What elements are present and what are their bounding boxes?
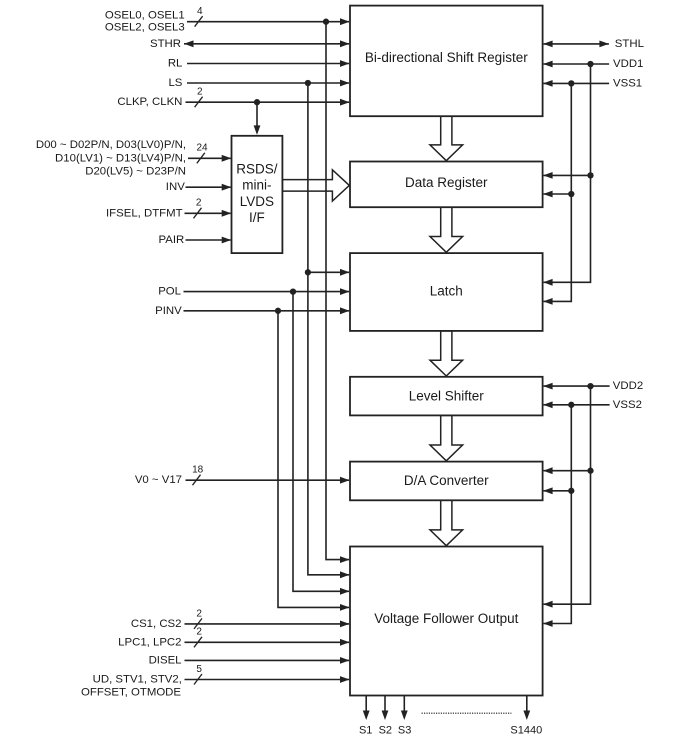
svg-text:S2: S2 — [379, 725, 392, 737]
svg-text:INV: INV — [166, 181, 185, 193]
svg-text:Bi-directional Shift Register: Bi-directional Shift Register — [365, 50, 528, 65]
svg-text:4: 4 — [197, 6, 203, 17]
svg-text:VSS2: VSS2 — [613, 399, 642, 411]
svg-text:LPC1, LPC2: LPC1, LPC2 — [118, 636, 181, 648]
svg-text:PAIR: PAIR — [159, 234, 185, 246]
svg-text:D20(LV5) ~ D23P/N: D20(LV5) ~ D23P/N — [85, 165, 186, 177]
svg-text:VDD1: VDD1 — [613, 58, 643, 70]
svg-text:S1: S1 — [359, 725, 372, 737]
svg-text:18: 18 — [192, 465, 204, 476]
svg-text:OFFSET, OTMODE: OFFSET, OTMODE — [81, 686, 181, 698]
svg-text:IFSEL, DTFMT: IFSEL, DTFMT — [106, 207, 183, 219]
svg-text:S1440: S1440 — [510, 725, 542, 737]
svg-text:RSDS/: RSDS/ — [236, 162, 278, 177]
svg-text:2: 2 — [196, 198, 202, 209]
svg-text:D/A Converter: D/A Converter — [404, 473, 489, 488]
svg-text:2: 2 — [196, 608, 202, 619]
svg-text:DISEL: DISEL — [149, 654, 182, 666]
svg-text:I/F: I/F — [249, 210, 265, 225]
svg-text:OSEL0, OSEL1: OSEL0, OSEL1 — [105, 10, 185, 22]
svg-text:LVDS: LVDS — [240, 194, 274, 209]
svg-text:D10(LV1) ~ D13(LV4)P/N,: D10(LV1) ~ D13(LV4)P/N, — [55, 152, 186, 164]
svg-text:UD, STV1, STV2,: UD, STV1, STV2, — [93, 674, 182, 686]
svg-text:Level Shifter: Level Shifter — [409, 389, 485, 404]
svg-text:Data Register: Data Register — [405, 175, 488, 190]
svg-text:D00 ~ D02P/N, D03(LV0)P/N,: D00 ~ D02P/N, D03(LV0)P/N, — [36, 139, 186, 151]
svg-text:LS: LS — [168, 77, 182, 89]
svg-text:S3: S3 — [398, 725, 411, 737]
svg-text:5: 5 — [196, 664, 202, 675]
svg-text:VSS1: VSS1 — [613, 77, 642, 89]
svg-text:OSEL2, OSEL3: OSEL2, OSEL3 — [105, 22, 185, 34]
svg-text:RL: RL — [168, 58, 183, 70]
svg-text:mini-: mini- — [242, 178, 271, 193]
svg-text:2: 2 — [197, 87, 203, 98]
svg-text:24: 24 — [196, 143, 208, 154]
svg-text:2: 2 — [196, 627, 202, 638]
svg-text:CS1, CS2: CS1, CS2 — [131, 618, 182, 630]
svg-text:Latch: Latch — [430, 284, 463, 299]
svg-text:PINV: PINV — [155, 305, 182, 317]
svg-text:VDD2: VDD2 — [613, 380, 643, 392]
svg-text:STHL: STHL — [615, 38, 644, 50]
svg-text:STHR: STHR — [150, 38, 181, 50]
svg-text:CLKP, CLKN: CLKP, CLKN — [117, 96, 182, 108]
svg-text:POL: POL — [158, 286, 181, 298]
svg-text:V0 ~ V17: V0 ~ V17 — [135, 474, 182, 486]
svg-text:Voltage Follower Output: Voltage Follower Output — [374, 611, 518, 626]
